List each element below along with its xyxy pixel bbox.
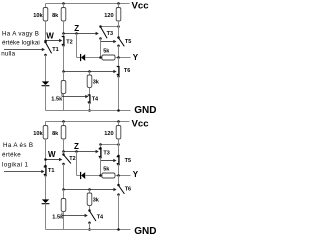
wire drop corner to diode (bottom) — [77, 175, 81, 177]
wire GND rail (top) — [46, 110, 131, 112]
svg-text:Ha A vagy B: Ha A vagy B — [2, 31, 39, 38]
transistor T6 off (top) — [117, 67, 119, 75]
svg-text:T4: T4 — [92, 96, 99, 102]
wire diode to 5k (bottom) — [85, 175, 102, 177]
resistor 8k (bottom) — [61, 126, 66, 140]
svg-text:Vcc: Vcc — [132, 0, 150, 11]
label annotation line 1 (bottom) — [3, 142, 33, 149]
node Z-8k junction (top) — [62, 32, 65, 35]
wire 3k to T4 (bottom) — [89, 206, 91, 211]
wire T3 collector stub (bottom) — [100, 145, 102, 149]
wire W arrow to T2 base (bottom) — [46, 158, 63, 161]
node T4 ground junction (bottom) — [88, 228, 91, 231]
diode level shift (top) — [81, 54, 86, 61]
svg-text:GND: GND — [134, 226, 156, 237]
wire 8k top stub (bottom) — [63, 122, 65, 126]
resistor 5k (top) — [102, 55, 115, 60]
resistor 1.5k (bottom) — [61, 199, 66, 212]
node T6 bottom contact (top) — [117, 75, 120, 78]
wire Z node arrow to T3 (top) — [64, 32, 99, 35]
node T4 top contact (bottom) — [88, 209, 91, 212]
transistor T5 off (bottom) — [117, 157, 119, 164]
wire T3 arrow to T5 (top) — [101, 40, 117, 43]
node T3 collector junction (top) — [99, 25, 102, 28]
node T3 bottom contact (bottom) — [99, 156, 102, 159]
svg-text:5k: 5k — [103, 166, 110, 172]
label T5 (top) — [125, 39, 131, 45]
svg-text:T2: T2 — [69, 156, 75, 162]
label T1 (bottom) — [48, 168, 54, 174]
wire annotation arrow (bottom) — [4, 170, 45, 173]
svg-text:Vcc: Vcc — [132, 118, 150, 129]
svg-text:10k: 10k — [33, 13, 43, 19]
label 1.5k value (top) — [51, 96, 63, 102]
wire annotation arrow (top) — [4, 48, 45, 51]
resistor 10k (bottom) — [43, 126, 48, 140]
label T3 (top) — [107, 31, 113, 37]
transistor T4 off (top) — [88, 95, 90, 102]
wire 8k top stub (top) — [63, 4, 65, 8]
transistor T2 off (top) — [62, 37, 64, 45]
svg-text:T5: T5 — [125, 158, 131, 164]
wire 10k bottom to W node (bottom) — [45, 139, 47, 166]
node T3 bottom contact (top) — [99, 37, 102, 40]
node T5 top contact (bottom) — [117, 155, 120, 158]
wire emitter node to 1.5k (top) — [63, 72, 65, 81]
node T3 collector junction (bottom) — [99, 143, 102, 146]
wire GND rail (bottom) — [46, 229, 131, 231]
resistor 3k (top) — [87, 75, 92, 88]
wire drop corner to diode (top) — [77, 57, 81, 59]
wire 10k top stub (top) — [45, 4, 47, 8]
label 3k value (bottom) — [93, 197, 100, 203]
node T1 bottom contact (bottom) — [44, 174, 47, 177]
svg-text:T6: T6 — [124, 68, 130, 74]
node Vcc-120 junction (bottom) — [117, 120, 120, 123]
label Vcc (bottom) — [132, 118, 150, 129]
label GND (bottom) — [134, 226, 156, 237]
wire Vcc rail (bottom) — [46, 121, 130, 123]
label 120 value (bottom) — [104, 131, 113, 137]
wire T4 to GND rail (bottom) — [89, 223, 91, 230]
wire Y junction down to T6 (top) — [118, 58, 120, 67]
wire T2 emitter arrow to T6 base (bottom) — [64, 188, 117, 191]
wire Z to T2 (bottom) — [63, 152, 65, 155]
label 5k value (bottom) — [103, 166, 110, 172]
diode input clamp (top) — [42, 81, 50, 85]
wire 1.5k arrow to T4 base (top) — [62, 94, 89, 99]
node 3k tap junction (bottom) — [88, 188, 91, 191]
node 120 column junction (top) — [117, 25, 120, 28]
wire T4 to GND rail (top) — [89, 103, 91, 111]
transistor T5 conducting blade (top) — [119, 38, 125, 46]
wire Vcc rail (top) — [46, 3, 130, 5]
node Z drop junction (top) — [75, 32, 78, 35]
label 8k value (bottom) — [52, 131, 59, 137]
resistor 120 (top) — [116, 8, 121, 22]
svg-text:logikai 1: logikai 1 — [2, 161, 28, 168]
wire 120 top stub (bottom) — [118, 122, 120, 126]
wire T6 to GND rail (top) — [118, 76, 120, 110]
wire 1.5k to GND rail (bottom) — [63, 212, 65, 230]
node Vcc-120 junction (top) — [117, 2, 120, 5]
label T5 (bottom) — [125, 158, 131, 164]
wire 3k top stub (bottom) — [89, 190, 91, 194]
node T4 bottom contact (bottom) — [88, 222, 91, 225]
resistor 120 (bottom) — [116, 126, 121, 140]
transistor T1 conducting blade (top) — [46, 42, 52, 53]
label 10k value (bottom) — [33, 131, 43, 137]
label 1.5k value (bottom) — [52, 214, 64, 220]
svg-text:1.5k: 1.5k — [51, 96, 63, 102]
node T1 top contact (bottom) — [44, 165, 47, 168]
svg-text:8k: 8k — [52, 131, 59, 137]
svg-text:120: 120 — [104, 131, 113, 137]
svg-text:120: 120 — [104, 13, 113, 19]
svg-text:T5: T5 — [125, 39, 131, 45]
svg-text:Z: Z — [74, 24, 79, 33]
label 120 value (top) — [104, 13, 113, 19]
svg-text:Z: Z — [74, 142, 79, 151]
node Z drop junction (bottom) — [75, 150, 78, 153]
label GND (top) — [134, 105, 156, 116]
transistor T3 conducting blade (top) — [101, 27, 108, 38]
wire 120 bottom to T5 (top) — [118, 21, 120, 38]
node T3 top contact (bottom) — [99, 147, 102, 150]
wire Z to T2 collector (top) — [63, 34, 65, 37]
node T1 top contact (top) — [44, 41, 47, 44]
transistor T3 off (bottom) — [99, 149, 101, 157]
svg-text:értéke logikai: értéke logikai — [2, 39, 40, 46]
node Vcc-8k junction (top) — [62, 2, 65, 5]
wire 120 top stub (top) — [118, 4, 120, 8]
label T2 (bottom) — [69, 156, 75, 162]
label T4 (bottom) — [97, 215, 104, 221]
wire emitter node to 1.5k (bottom) — [63, 190, 65, 199]
wire 8k bottom to Z node (bottom) — [63, 139, 65, 152]
label output Y (top) — [133, 53, 139, 62]
node T1 bottom contact (top) — [44, 54, 47, 57]
svg-text:W: W — [46, 32, 54, 41]
wire T3 emitter down to 5k (bottom) — [100, 157, 102, 175]
label T1 (top) — [52, 47, 58, 53]
node T4 ground junction (top) — [88, 109, 91, 112]
wire T3 arrow to T5 (bottom) — [101, 159, 117, 162]
wire 3k to T4 (top) — [89, 88, 91, 96]
svg-text:T6: T6 — [125, 187, 131, 193]
node T5 bottom contact (bottom) — [117, 163, 120, 166]
label T3 (bottom) — [103, 150, 109, 156]
svg-text:T1: T1 — [48, 168, 54, 174]
svg-text:10k: 10k — [33, 131, 43, 137]
label T4 (top) — [92, 96, 99, 102]
label annotation line 2 (bottom) — [2, 152, 21, 159]
transistor T2 conducting blade (bottom) — [64, 155, 71, 164]
label Vcc (top) — [132, 0, 150, 11]
node T4 bottom contact (top) — [88, 101, 91, 104]
label annotation line 3 (top) — [1, 50, 15, 57]
wire 1.5k arrow to T4 base (bottom) — [62, 213, 88, 218]
node T5 top contact (top) — [117, 36, 120, 39]
wire 1.5k to GND rail (top) — [63, 94, 65, 111]
node T6 bottom contact (bottom) — [117, 193, 120, 196]
node 120 column junction (bottom) — [117, 143, 120, 146]
svg-text:W: W — [48, 150, 56, 159]
wire W arrow to T2 base (top) — [46, 39, 63, 42]
wire T1 to clamp diode (bottom) — [45, 175, 47, 199]
diode input clamp (bottom) — [42, 199, 50, 203]
node W junction (bottom) — [44, 158, 47, 161]
wire T3 collector wire (top) — [101, 26, 119, 28]
wire diode to 5k (top) — [85, 57, 102, 59]
resistor 8k (top) — [61, 8, 66, 22]
wire 5k to Y (bottom) — [115, 175, 131, 177]
wire 5k to Y (top) — [115, 57, 131, 59]
wire 10k top stub (bottom) — [45, 122, 47, 126]
wire clamp diode to GND rail (bottom) — [45, 204, 47, 230]
resistor 10k (top) — [43, 8, 48, 22]
transistor T4 conducting blade (bottom) — [90, 211, 96, 221]
resistor 3k (bottom) — [87, 193, 92, 206]
node T2 bottom contact (top) — [62, 44, 65, 47]
label node W (top) — [46, 32, 54, 41]
label 10k value (top) — [33, 13, 43, 19]
node 5k left junction (bottom) — [99, 174, 102, 177]
label annotation line 1 (top) — [2, 31, 39, 38]
wire T2 emitter down (top) — [63, 45, 65, 71]
node W junction (top) — [44, 40, 47, 43]
svg-text:nulla: nulla — [1, 50, 15, 57]
node Z-8k junction (bottom) — [62, 150, 65, 153]
node T2 bottom contact (bottom) — [62, 163, 65, 166]
svg-text:8k: 8k — [52, 13, 59, 19]
wire T6 to GND rail (bottom) — [118, 195, 120, 230]
node Vcc-8k junction (bottom) — [62, 120, 65, 123]
node 5k left junction (top) — [99, 56, 102, 59]
svg-text:GND: GND — [134, 105, 156, 116]
node Y junction (bottom) — [117, 174, 120, 177]
resistor 1.5k (top) — [61, 81, 66, 94]
node 3k tap junction (top) — [88, 70, 91, 73]
node T6 ground junction (bottom) — [117, 228, 120, 231]
label annotation line 3 (bottom) — [2, 161, 28, 168]
node T6 top contact (bottom) — [117, 184, 120, 187]
wire clamp diode to GND rail (top) — [45, 86, 47, 111]
label node W (bottom) — [48, 150, 56, 159]
diode level shift (bottom) — [81, 172, 86, 179]
wire 3k top stub (top) — [89, 72, 91, 76]
label output Y (bottom) — [133, 170, 139, 179]
svg-text:5k: 5k — [103, 48, 110, 54]
wire T3 emitter down to 5k (top) — [100, 39, 102, 58]
node T6 ground junction (top) — [117, 109, 120, 112]
wire 10k bottom to W node (top) — [45, 21, 47, 42]
svg-text:Y: Y — [133, 53, 139, 62]
wire T5 emitter to Y row (bottom) — [118, 164, 120, 175]
node T5 bottom contact (top) — [117, 44, 120, 47]
node emitter junction (bottom) — [62, 188, 65, 191]
svg-text:T4: T4 — [97, 215, 104, 221]
label 8k value (top) — [52, 13, 59, 19]
wire Z drop column (bottom) — [76, 152, 78, 176]
transistor T6 conducting blade (bottom) — [119, 185, 125, 194]
label T6 (bottom) — [125, 187, 131, 193]
wire 120 bottom to T5 (bottom) — [118, 139, 120, 156]
svg-text:Y: Y — [133, 170, 139, 179]
resistor 5k (bottom) — [102, 173, 115, 178]
label node Z (bottom) — [74, 142, 79, 151]
wire T2 emitter arrow to T6 base (top) — [64, 70, 117, 73]
wire T3 collector wire (bottom) — [101, 144, 119, 146]
svg-text:3k: 3k — [93, 197, 100, 203]
node T2 top contact (bottom) — [62, 153, 65, 156]
svg-text:T3: T3 — [103, 150, 109, 156]
wire Y junction down to T6 (bottom) — [118, 176, 120, 186]
label 3k value (top) — [93, 79, 100, 85]
wire 8k bottom to Z node (top) — [63, 21, 65, 34]
wire T1 to clamp diode (top) — [45, 55, 47, 82]
svg-text:T3: T3 — [107, 31, 113, 37]
label T6 (top) — [124, 68, 130, 74]
svg-text:Ha A és B: Ha A és B — [3, 142, 33, 149]
label 5k value (top) — [103, 48, 110, 54]
wire Z drop column (top) — [76, 34, 78, 58]
svg-text:T1: T1 — [52, 47, 58, 53]
wire Z node arrow to T3 (bottom) — [64, 150, 99, 153]
label node Z (top) — [74, 24, 79, 33]
label annotation line 2 (top) — [2, 39, 40, 46]
svg-text:3k: 3k — [93, 79, 100, 85]
svg-text:T2: T2 — [66, 39, 72, 45]
wire T5 emitter to Y row (top) — [118, 46, 120, 58]
node Y junction (top) — [117, 56, 120, 59]
node emitter junction (top) — [62, 70, 65, 73]
svg-text:értéke: értéke — [2, 152, 21, 159]
wire T2 emitter down (bottom) — [63, 164, 65, 190]
label T2 (top) — [66, 39, 72, 45]
transistor T1 off (bottom) — [44, 167, 46, 175]
